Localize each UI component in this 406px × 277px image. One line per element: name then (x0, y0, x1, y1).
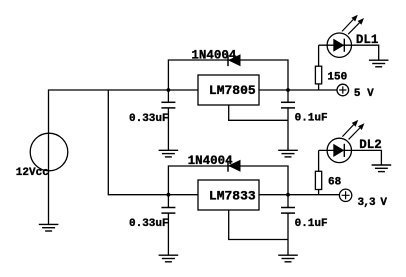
svg-text:0.33uF: 0.33uF (129, 113, 169, 125)
svg-text:LM7805: LM7805 (209, 83, 256, 98)
svg-text:68: 68 (328, 177, 342, 189)
svg-text:5 V: 5 V (354, 88, 374, 100)
svg-text:150: 150 (327, 72, 347, 84)
svg-text:LM7833: LM7833 (209, 189, 256, 204)
svg-text:1N4004: 1N4004 (188, 154, 234, 168)
svg-text:0.1uF: 0.1uF (295, 218, 328, 230)
svg-text:1N4004: 1N4004 (191, 49, 237, 63)
svg-text:0.1uF: 0.1uF (295, 112, 328, 124)
svg-text:DL2: DL2 (359, 138, 382, 152)
svg-text:DL1: DL1 (356, 33, 379, 47)
svg-text:12Vcc: 12Vcc (16, 167, 49, 179)
svg-text:3,3 V: 3,3 V (358, 197, 388, 209)
svg-text:0.33uF: 0.33uF (129, 218, 169, 230)
